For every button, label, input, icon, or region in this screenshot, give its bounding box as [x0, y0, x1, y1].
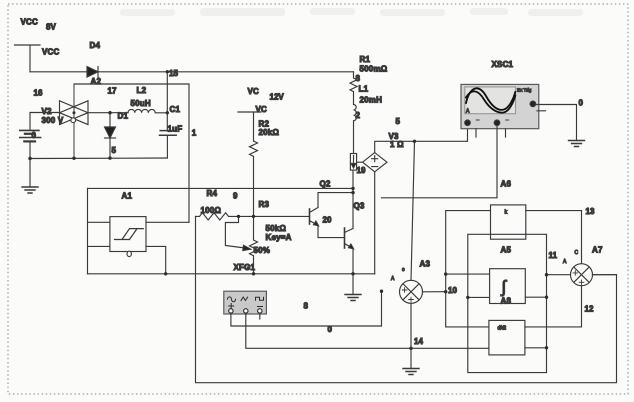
svg-text:8V: 8V — [46, 23, 56, 32]
svg-text:10: 10 — [448, 286, 457, 295]
svg-text:A7: A7 — [592, 246, 603, 255]
wire pid input vertical — [446, 211, 491, 327]
diode D1 — [105, 113, 116, 159]
battery V1 — [20, 130, 41, 158]
svg-text:9: 9 — [233, 192, 238, 201]
wire A8 output — [525, 296, 546, 298]
resistor R4 — [196, 213, 239, 220]
wire k output to A7 top — [526, 211, 582, 264]
svg-text:VCC: VCC — [21, 18, 39, 27]
svg-text:5: 5 — [112, 146, 117, 155]
integrator A8 — [490, 269, 526, 304]
svg-text:2: 2 — [356, 111, 361, 120]
svg-text:L1: L1 — [359, 85, 369, 94]
svg-text:14: 14 — [414, 337, 423, 346]
summer A7 — [571, 264, 593, 286]
wire Q3 emitter to ground — [352, 274, 354, 295]
svg-text:13: 13 — [586, 207, 595, 216]
svg-text:20mH: 20mH — [360, 96, 383, 105]
svg-text:VC: VC — [248, 87, 260, 96]
wire D4 cathode to node 15 and R1 top — [98, 71, 354, 73]
svg-text:100Ω: 100Ω — [201, 206, 222, 215]
wire probe to V3 diamond — [357, 161, 363, 163]
resistor R1 — [350, 72, 357, 104]
svg-text:A8: A8 — [501, 297, 512, 306]
svg-text:500mΩ: 500mΩ — [360, 65, 388, 74]
gain block A5 — [491, 205, 526, 239]
wire A8 lower input — [468, 296, 490, 298]
wire V3 output to scope A — [375, 126, 468, 153]
svg-text:15: 15 — [169, 69, 178, 78]
svg-text:0: 0 — [328, 325, 333, 334]
wire A8 upper input — [446, 273, 490, 275]
wire net 0 bottom of A1 to diamond — [88, 273, 375, 275]
wire net Q2 long horizontal — [88, 187, 354, 189]
wire A1 loop left side — [88, 188, 110, 273]
wire A7 bottom node 12 to d/dt — [525, 286, 582, 327]
inductor L2 — [128, 109, 167, 112]
svg-text:17: 17 — [108, 87, 117, 96]
wire net 0 from XFG1 plus to A3 — [231, 291, 382, 326]
svg-text:VC: VC — [256, 105, 268, 114]
svg-text:k: k — [505, 210, 508, 216]
triac V2 — [60, 84, 89, 158]
diode D4 — [87, 67, 98, 78]
transistor Q3 — [345, 170, 354, 274]
svg-text:20: 20 — [323, 216, 332, 225]
wire A1 right pins — [146, 222, 189, 273]
svg-text:5: 5 — [396, 117, 401, 126]
svg-text:R1: R1 — [360, 55, 371, 64]
wire net 14 from XFG1 mid to d/dt — [246, 313, 489, 348]
svg-text:R3: R3 — [259, 200, 270, 209]
svg-text:D4: D4 — [90, 41, 101, 50]
wire ext trig to ground — [536, 105, 577, 141]
svg-text:Key=A: Key=A — [266, 233, 292, 242]
svg-text:C1: C1 — [170, 105, 181, 114]
wire XFG1 minus stub — [259, 313, 261, 319]
svg-text:R4: R4 — [207, 189, 218, 198]
svg-text:A5: A5 — [501, 246, 512, 255]
page ghost smudges — [120, 8, 583, 16]
svg-text:Q3: Q3 — [354, 202, 365, 211]
wire battery node to ground — [29, 159, 31, 188]
wire scope B to net A6 — [382, 126, 498, 198]
svg-text:11: 11 — [549, 251, 558, 260]
wire feedback vertical and bottom rail — [196, 216, 617, 382]
svg-text:16: 16 — [34, 89, 43, 98]
multiplier A3 — [400, 280, 423, 303]
svg-text:19: 19 — [357, 166, 366, 175]
wire battery top to V2 left — [30, 113, 60, 130]
differentiator block — [489, 320, 525, 355]
svg-text:D1: D1 — [118, 112, 129, 121]
ground at Q3 — [345, 295, 361, 301]
inductor L1 — [354, 105, 357, 154]
wire rectangle loop around A8 — [468, 234, 547, 372]
svg-text:L2: L2 — [137, 86, 147, 95]
svg-text:8: 8 — [356, 74, 361, 83]
svg-text:12V: 12V — [270, 93, 285, 102]
wire V2 right to D1 and L2 — [88, 112, 128, 114]
current probe 19 — [350, 154, 356, 171]
wire diamond bottom down to xfg rail — [374, 172, 376, 274]
svg-text:50%: 50% — [254, 246, 271, 255]
wire bottom left rail — [30, 157, 167, 160]
svg-text:Q2: Q2 — [320, 180, 331, 189]
svg-text:V2: V2 — [42, 107, 53, 116]
svg-text:50kΩ: 50kΩ — [266, 224, 287, 233]
capacitor C1 — [160, 131, 177, 158]
svg-text:8: 8 — [304, 302, 309, 311]
svg-text:1uF: 1uF — [168, 125, 183, 134]
svg-text:XSC1: XSC1 — [492, 60, 514, 69]
wire A3 output node 10 — [423, 291, 446, 293]
comparator A1 — [110, 217, 146, 257]
wire R4 to Q2 base — [239, 215, 310, 217]
svg-text:A6: A6 — [501, 180, 512, 189]
oscilloscope XSC1 — [461, 84, 546, 137]
wire A3 top from V3 net — [411, 141, 415, 280]
resistor R2 — [250, 141, 258, 216]
ground at ext trig — [569, 141, 585, 147]
svg-text:0: 0 — [32, 131, 37, 140]
VCC power rail — [15, 45, 41, 72]
svg-text:A2: A2 — [91, 77, 102, 86]
svg-text:A3: A3 — [420, 260, 431, 269]
wire VCC to D4 anode — [30, 71, 87, 73]
wire A3 bottom to ground — [410, 303, 412, 368]
wire d/dt output — [525, 347, 547, 349]
svg-text:XFG1: XFG1 — [234, 263, 256, 272]
ground at A3 — [403, 369, 419, 375]
svg-text:Ex Trig: Ex Trig — [517, 88, 532, 93]
svg-text:d/dt: d/dt — [498, 326, 507, 332]
wire node 15 down to C1 top — [166, 72, 168, 131]
svg-text:20kΩ: 20kΩ — [259, 128, 280, 137]
source V3 diamond — [363, 153, 387, 172]
svg-text:VCC: VCC — [42, 48, 60, 57]
svg-text:12: 12 — [585, 305, 594, 314]
svg-text:1: 1 — [192, 129, 197, 138]
svg-text:0: 0 — [579, 99, 584, 108]
svg-text:300 V: 300 V — [42, 116, 64, 125]
svg-text:50uH: 50uH — [131, 99, 151, 108]
wire net 17 from V2 top to vertical — [74, 84, 189, 222]
VC power rail — [238, 112, 261, 141]
wire A7 output — [593, 274, 617, 276]
ground — [22, 187, 38, 193]
function generator XFG1 — [224, 291, 267, 314]
wire to A7 left input — [547, 274, 571, 276]
potentiometer R3 — [225, 216, 257, 273]
svg-text:A1: A1 — [122, 192, 133, 201]
svg-text:C: C — [575, 250, 579, 256]
transistor Q2 — [310, 193, 354, 238]
